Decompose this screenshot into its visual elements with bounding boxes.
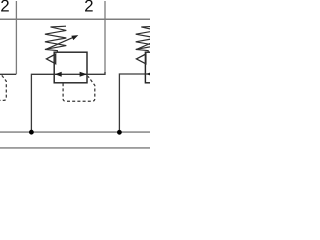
wire: input drop of regulator R2 (black, port 1)	[119, 74, 145, 132]
wire: output elbow of regulator R1 (black)	[87, 72, 105, 74]
wire: bottom supply bus 1 (gray)	[0, 131, 150, 133]
regulator R2 flow path	[145, 73, 150, 75]
regulator R1 flow arrow right	[80, 72, 87, 77]
junction dot: regulator R1 input on bus 1	[29, 130, 34, 135]
regulator R2 body (clipped at right edge)	[145, 52, 178, 83]
pilot line (dashed) of regulator R0	[0, 75, 6, 100]
junction dot: regulator R2 input on bus 1	[117, 130, 122, 135]
wire: output elbow of regulator R0 (black)	[0, 73, 16, 75]
regulator R1 flow path	[54, 73, 87, 75]
regulator R2 spring (clipped at right edge)	[136, 26, 157, 52]
regulator R1 vent triangle (port 3)	[46, 54, 55, 64]
regulator R2 flow arrow left	[146, 72, 153, 77]
wire: top pressure rail (gray)	[0, 18, 150, 20]
node label 2 (port 2 of regulator R0)	[1, 0, 9, 12]
pilot line (dashed) of regulator R1	[63, 76, 95, 101]
wire: bottom supply bus 2 (gray)	[0, 147, 150, 149]
wire: input drop of regulator R1 (black, port 1)	[31, 74, 54, 132]
regulator R2 vent triangle (port 3)	[136, 54, 146, 64]
node label 2 (port 2 of regulator R1)	[85, 0, 93, 12]
regulator R2 adjustment arrow shaft (clipped)	[136, 37, 164, 49]
regulator R1 body	[54, 52, 87, 83]
regulator R1 spring	[45, 26, 66, 52]
wire: output riser of regulator R0 (gray, port 2)	[15, 1, 17, 74]
wire: output riser of regulator R1 (gray, port 2)	[104, 1, 106, 74]
regulator R1 adjustment arrow shaft	[46, 37, 74, 49]
regulator R1 adjustment arrow head	[71, 35, 78, 40]
regulator R1 flow arrow left	[55, 72, 62, 77]
